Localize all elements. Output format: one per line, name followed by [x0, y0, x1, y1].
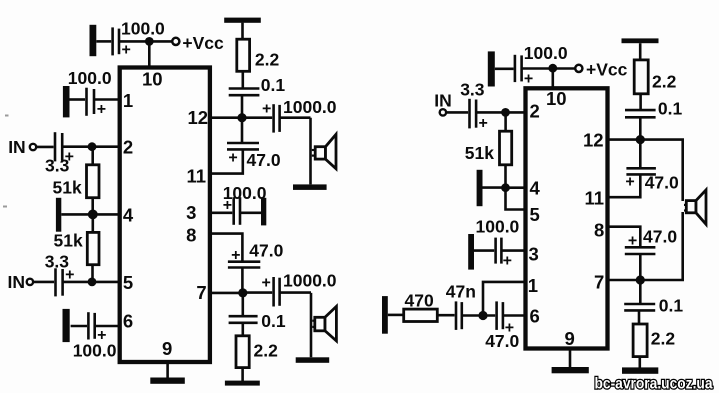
wire: [61, 213, 93, 216]
svg-text:+: +: [625, 174, 634, 191]
junction: [145, 37, 154, 46]
capacitor C17 47.0 (pin 6): [497, 301, 503, 330]
wire pin 4: [93, 213, 120, 216]
wire: [91, 147, 94, 165]
svg-text:+: +: [262, 274, 271, 291]
ground bar (pin 4 right): [477, 170, 483, 206]
resistor R3 2.2: [237, 39, 250, 71]
svg-text:IN: IN: [434, 90, 452, 110]
svg-text:2.2: 2.2: [652, 72, 677, 92]
svg-text:12: 12: [583, 130, 604, 151]
wire: [638, 357, 641, 368]
wire: [309, 118, 312, 185]
ground bar (top, R7): [622, 38, 659, 43]
svg-text:+: +: [479, 115, 488, 132]
wire pin 10: [551, 68, 554, 88]
junction node pin 12: [636, 135, 645, 144]
wire: [91, 198, 94, 215]
ground bar (top, R3): [224, 18, 261, 23]
wire pin 5: [506, 188, 526, 210]
wire: [240, 212, 261, 215]
junction node pin 2: [88, 142, 97, 151]
wire: [638, 310, 641, 324]
wire: [242, 293, 245, 317]
wire pin 12: [210, 116, 242, 119]
wire: [243, 291, 272, 294]
wire: [388, 314, 404, 317]
wire: [447, 111, 469, 114]
svg-text:47.0: 47.0: [247, 150, 281, 170]
wire pin 12: [608, 138, 641, 141]
svg-text:0.1: 0.1: [261, 75, 286, 95]
wire: [608, 174, 641, 197]
svg-text:6: 6: [530, 305, 540, 326]
wire pin 7: [210, 292, 243, 295]
capacitor C7 1000.0 (upper out): [274, 104, 280, 132]
op-amp IC U1: [120, 68, 210, 363]
svg-text:3: 3: [529, 243, 539, 264]
wire pin 2: [476, 111, 525, 114]
capacitor C9 100.0 (pin 3): [234, 197, 240, 225]
wire: [71, 325, 87, 328]
capacitor C20 47.0 (pin 8): [625, 247, 656, 254]
svg-text:10: 10: [142, 68, 163, 89]
capacitor C4 3.3 (lower input): [56, 268, 63, 296]
ground (R4): [225, 381, 260, 386]
svg-text:0.1: 0.1: [659, 296, 684, 316]
junction node pin 2: [501, 108, 510, 117]
wire: [437, 314, 454, 317]
svg-text:IN: IN: [8, 137, 26, 157]
ground bar (top-left cap C1): [90, 25, 97, 56]
svg-text:4: 4: [123, 205, 134, 226]
svg-text:10: 10: [546, 88, 567, 109]
terminal +Vcc: [172, 38, 179, 45]
capacitor C19 47.0 (pin 11): [626, 168, 656, 174]
svg-text:100.0: 100.0: [524, 43, 568, 63]
svg-text:12: 12: [188, 107, 209, 128]
svg-text:+: +: [628, 232, 637, 249]
svg-text:+: +: [228, 150, 237, 167]
wire: [280, 291, 311, 294]
svg-text:11: 11: [187, 166, 207, 187]
wire: [639, 254, 642, 280]
wire pin 6: [95, 325, 120, 328]
wire: [210, 149, 243, 173]
wire: [241, 368, 244, 381]
resistor R8 2.2: [633, 324, 647, 357]
svg-text:51k: 51k: [465, 143, 494, 163]
wire: [36, 146, 53, 149]
svg-text:1000.0: 1000.0: [283, 271, 337, 291]
wire: [495, 68, 514, 71]
svg-text:1: 1: [528, 275, 538, 296]
wire: [92, 214, 95, 232]
ground bar (pin 4): [56, 198, 61, 232]
svg-text:bc-avrora.ucoz.ua: bc-avrora.ucoz.ua: [595, 376, 713, 393]
wire pin 3: [501, 249, 525, 252]
junction node pin 5: [88, 278, 97, 287]
wire pin 10: [148, 41, 151, 67]
svg-text:IN: IN: [8, 272, 26, 292]
svg-text:100.0: 100.0: [73, 341, 117, 361]
wire: [640, 212, 682, 280]
svg-text:+Vcc: +Vcc: [586, 59, 628, 79]
svg-text:3: 3: [186, 202, 196, 223]
svg-text:2.2: 2.2: [651, 329, 676, 349]
wire: [280, 116, 311, 119]
wire: [310, 293, 313, 357]
wire: [34, 281, 55, 284]
capacitor C11 1000.0 (lower out): [274, 277, 280, 307]
resistor R6 470: [404, 309, 438, 321]
junction node pin 7: [238, 288, 247, 297]
wire: [640, 140, 682, 201]
capacitor C3 3.3 (upper input): [55, 132, 62, 161]
wire pin 4: [506, 186, 526, 189]
svg-text:+: +: [524, 70, 533, 87]
capacitor C13 100.0 (Vcc): [515, 55, 522, 82]
wire: [241, 268, 244, 293]
wire: [639, 94, 642, 110]
ground bar (pin-6 cap C5): [63, 309, 70, 342]
svg-text:100.0: 100.0: [476, 217, 520, 237]
svg-text:47.0: 47.0: [485, 331, 519, 351]
svg-text:+: +: [231, 247, 240, 264]
wire pin 5: [63, 281, 120, 284]
svg-text:51k: 51k: [54, 231, 83, 251]
svg-text:11: 11: [585, 188, 605, 209]
terminal +Vcc: [575, 65, 582, 72]
capacitor C18 0.1 (upper right): [625, 110, 656, 117]
wire: [242, 71, 245, 88]
resistor R4 2.2: [236, 336, 249, 368]
svg-text:3.3: 3.3: [45, 251, 70, 271]
svg-text:100.0: 100.0: [121, 19, 165, 39]
svg-text:1000.0: 1000.0: [283, 97, 337, 117]
wire pin 6: [503, 314, 526, 317]
svg-text:100.0: 100.0: [223, 183, 267, 203]
svg-text:8: 8: [186, 225, 196, 246]
scan speck: [5, 115, 9, 117]
speaker LS1: [312, 134, 336, 168]
svg-text:9: 9: [565, 328, 575, 349]
svg-text:0.1: 0.1: [658, 99, 683, 119]
capacitor C8 47.0 (pin 11): [227, 143, 259, 149]
svg-text:51k: 51k: [53, 178, 82, 198]
speaker LS2: [312, 306, 336, 341]
wire: [639, 280, 642, 304]
junction node pin 6: [478, 311, 487, 320]
wire pin 3: [210, 212, 232, 215]
speaker LS3: [684, 190, 706, 224]
wire: [483, 186, 506, 189]
ground (speaker LS1): [293, 184, 327, 190]
wire: [504, 165, 507, 188]
svg-text:6: 6: [123, 311, 133, 332]
wire: [241, 118, 244, 143]
wire pin 9: [166, 362, 169, 379]
svg-text:47.0: 47.0: [249, 240, 283, 260]
svg-text:+Vcc: +Vcc: [182, 33, 224, 53]
wire: [119, 40, 172, 43]
svg-text:2: 2: [123, 137, 133, 158]
svg-text:2.2: 2.2: [254, 340, 279, 360]
terminal IN upper: [30, 144, 36, 150]
resistor R2 51k: [87, 232, 99, 264]
wire: [639, 140, 642, 169]
junction: [548, 64, 557, 73]
svg-text:5: 5: [123, 272, 133, 293]
wire: [639, 117, 642, 139]
junction node pin 7: [636, 275, 645, 284]
resistor R7 2.2: [634, 60, 648, 94]
ground (R8): [622, 367, 658, 373]
wire: [639, 43, 642, 60]
wire: [504, 112, 507, 131]
op-amp IC U2: [526, 88, 608, 348]
ground (pin 9 right): [552, 367, 589, 373]
svg-text:8: 8: [594, 219, 604, 240]
svg-text:5: 5: [530, 204, 540, 225]
capacitor C2 100.0: [87, 88, 95, 116]
svg-text:+: +: [122, 42, 131, 59]
wire pin 8: [608, 227, 641, 248]
svg-text:+: +: [262, 101, 271, 118]
svg-text:47.0: 47.0: [643, 227, 677, 247]
capacitor C5 100.0 (pin 6): [88, 312, 94, 339]
ground bar (pin-3 cap right): [468, 234, 474, 270]
wire: [242, 323, 245, 336]
svg-text:7: 7: [594, 272, 604, 293]
junction node pin 4: [88, 210, 98, 220]
svg-text:3.3: 3.3: [45, 156, 70, 176]
svg-text:100.0: 100.0: [68, 68, 112, 88]
svg-text:1: 1: [123, 90, 133, 111]
ground bar (pin-3 cap): [261, 198, 266, 226]
wire: [242, 116, 272, 119]
ground (pin 9): [150, 378, 185, 384]
capacitor C12 0.1 (lower): [229, 316, 258, 323]
terminal IN lower: [27, 279, 33, 285]
ground bar (top cap C13): [488, 51, 495, 86]
wire: [70, 98, 86, 101]
svg-text:47.0: 47.0: [645, 173, 679, 193]
capacitor C16 47n: [456, 301, 462, 330]
wire pin 7: [608, 279, 641, 282]
capacitor C1 100.0: [113, 27, 119, 55]
wire pin 1: [483, 282, 526, 316]
wire: [241, 23, 244, 40]
wire pin 2: [62, 145, 119, 148]
wire pin 8: [210, 234, 243, 262]
svg-text:2: 2: [530, 101, 540, 122]
svg-text:2.2: 2.2: [255, 49, 280, 69]
wire: [522, 67, 575, 70]
svg-text:4: 4: [530, 177, 541, 198]
ground bar (input chain right): [382, 296, 388, 334]
wire pin 9: [569, 349, 572, 368]
capacitor C21 0.1 (lower right): [624, 304, 655, 310]
ground (speaker LS2): [296, 357, 330, 363]
capacitor C10 47.0 (pin 8): [228, 262, 260, 268]
svg-text:47n: 47n: [446, 282, 476, 302]
wire: [96, 40, 111, 43]
svg-text:+: +: [97, 101, 106, 118]
svg-text:+: +: [503, 253, 512, 270]
svg-text:9: 9: [162, 338, 172, 359]
wire: [474, 249, 494, 252]
resistor R1 51k: [87, 165, 100, 198]
ground bar (pin-1 cap C2): [63, 86, 70, 117]
svg-text:3.3: 3.3: [460, 80, 485, 100]
svg-text:470: 470: [405, 290, 434, 310]
junction node pin 12: [237, 113, 246, 122]
svg-text:7: 7: [196, 282, 206, 303]
terminal IN right: [440, 109, 446, 115]
wire: [91, 265, 94, 282]
resistor R5 51k: [500, 131, 512, 165]
svg-text:0.1: 0.1: [261, 311, 286, 331]
capacitor C6 0.1 (upper): [229, 89, 260, 96]
junction node pin 4: [501, 183, 510, 192]
wire: [462, 314, 495, 317]
wire: [241, 95, 244, 118]
capacitor C15 100.0 (pin 3 right): [496, 238, 502, 264]
capacitor C14 3.3 (right input): [470, 99, 477, 129]
wire pin 1: [94, 98, 120, 101]
